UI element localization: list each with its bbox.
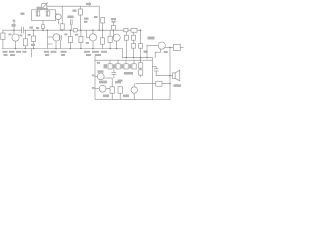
wire Q2 emitter <box>55 41 57 49</box>
resistor R4 <box>78 9 82 15</box>
wire T1 tap down <box>42 21 44 31</box>
capacitor T1 tap element <box>42 25 45 29</box>
label 6V <box>148 37 155 40</box>
wire B+ top rail <box>47 5 99 7</box>
wire Q7 base <box>95 88 99 90</box>
node antenna coil tap <box>12 24 16 27</box>
label m1 <box>104 64 108 68</box>
node dots ground <box>15 48 17 50</box>
label q1 area <box>9 34 12 36</box>
label osc <box>21 13 25 16</box>
resistor column x140 <box>140 30 142 43</box>
label near x99 <box>94 16 98 18</box>
capacitor C6 electrolytic <box>108 36 112 42</box>
label m7 <box>103 95 109 98</box>
label row bottom d <box>84 51 90 53</box>
label below T1 b <box>36 27 39 29</box>
resistor R1 <box>23 39 27 46</box>
transistor Q2b converter <box>55 14 61 20</box>
label row bottom-left a <box>3 51 8 53</box>
label below R2 <box>31 44 35 46</box>
label module pin A <box>97 62 100 64</box>
tick on top rail <box>89 3 91 6</box>
wire base feed Q2 <box>47 30 49 48</box>
resistor R8 <box>100 38 104 44</box>
resistor M-R3 <box>125 60 127 64</box>
label near rail2 <box>144 51 148 53</box>
label pin left b <box>92 87 94 89</box>
wire rail2 into module <box>151 58 153 61</box>
wire L1 top stub <box>2 30 4 33</box>
wire Q7 right <box>106 88 110 90</box>
resistor R10 on-line <box>124 29 128 32</box>
coil T1a <box>36 11 40 16</box>
wire bottom extension <box>152 99 170 101</box>
module box outline <box>95 60 152 99</box>
label C3 <box>68 16 74 19</box>
transformer box T1 <box>32 10 56 21</box>
wire R3 bottom <box>61 29 63 31</box>
trimmer capacitor VC1 <box>42 4 47 9</box>
label m4 <box>129 64 131 68</box>
wire Q2b to box <box>56 14 58 15</box>
coil T1b <box>46 11 50 16</box>
capacitor C4 <box>59 35 61 40</box>
label m6 <box>115 81 121 83</box>
resistor R7 <box>79 36 83 42</box>
wire Q2b down <box>57 20 59 24</box>
wire module right y83.6 <box>136 83 152 85</box>
speaker SP1 <box>172 73 175 78</box>
label speaker <box>174 84 182 87</box>
wire Q6 base <box>95 75 97 77</box>
wire Q1 emitter to ground <box>15 41 17 48</box>
capacitor C3 <box>69 20 71 25</box>
transistor Q7 <box>99 85 106 92</box>
wire cap column right of module <box>152 66 156 68</box>
wire main bus continues after C1 <box>24 29 141 31</box>
capacitor M-C1 <box>112 71 116 73</box>
ground rail <box>2 48 122 50</box>
resistor M-R4 <box>133 60 135 64</box>
wire stub x31 below ground <box>31 49 33 58</box>
wire Q4 emitter <box>116 41 118 48</box>
wire column x140 in module <box>140 58 142 63</box>
antenna wire <box>13 20 15 34</box>
transistor Q3 <box>89 34 96 41</box>
node dots rail2 <box>126 57 128 59</box>
box L1 earphone-left <box>1 33 5 40</box>
label m2 <box>113 64 115 68</box>
label r2 area <box>28 34 31 36</box>
coil tick T1b top <box>46 8 48 10</box>
label q3 area <box>86 42 89 44</box>
label r7 area <box>75 34 78 36</box>
label T1 <box>37 7 43 9</box>
wire Q5 base <box>147 44 158 46</box>
label near x170 top <box>164 51 168 53</box>
resistor column x126 <box>125 32 127 35</box>
wire Q3 collector <box>92 30 94 34</box>
wire R2 top <box>33 30 35 36</box>
wire R2 bottom <box>33 42 35 49</box>
wire to speaker <box>156 75 172 77</box>
wire Q4 base <box>112 30 114 37</box>
label below T1 a <box>30 27 34 29</box>
label cluster x85 <box>84 18 89 20</box>
transistor Q5 <box>158 42 165 49</box>
resistor R5 on-line <box>73 29 77 32</box>
wire Q3 emitter <box>92 41 94 49</box>
resistor column x133 <box>133 32 135 35</box>
resistor R9 <box>111 25 115 30</box>
wire Q6 right <box>104 77 112 79</box>
label pin left a <box>92 75 94 77</box>
resistor M-R6 <box>118 87 122 93</box>
label left of R4 <box>73 10 77 12</box>
transistor Q4 <box>113 34 120 41</box>
label r1 area <box>19 35 22 37</box>
resistor M-R1 <box>109 60 111 64</box>
wire y83.6 to x170 <box>152 83 170 85</box>
label right cluster <box>118 80 123 82</box>
label above Q6 <box>98 70 104 72</box>
resistor R3 <box>60 24 64 30</box>
label below Q6 <box>99 81 107 84</box>
resistor R6 <box>68 36 72 42</box>
node dots main bus <box>13 29 15 31</box>
wire feed column x99 <box>98 6 100 30</box>
wire feed column x62 <box>61 6 63 24</box>
transistor Q2 <box>53 34 60 41</box>
wire R1 bottom <box>24 46 26 49</box>
resistor M-R2 <box>117 60 119 64</box>
wire lower rail right section <box>122 57 152 59</box>
label r6 area <box>64 34 67 36</box>
wire Q3 base <box>86 30 88 37</box>
capacitor C10 <box>156 81 162 86</box>
label row bottom-left b <box>44 51 49 53</box>
label column x113 <box>111 18 116 20</box>
transistor Q6 <box>97 73 104 80</box>
transistor Q1 <box>12 34 19 41</box>
wire R4 top <box>79 6 81 9</box>
wire VC1 stub <box>43 9 45 10</box>
antenna arrow tick <box>13 20 15 22</box>
capacitor C1 <box>21 27 23 33</box>
label m3 <box>121 64 123 68</box>
wire C3 down <box>70 25 72 31</box>
resistor M-R5 <box>110 87 114 93</box>
capacitor C5 <box>101 18 105 24</box>
label m8 <box>123 95 129 98</box>
jack J1 <box>173 44 180 50</box>
resistor R11 on-line <box>131 28 137 32</box>
transistor Q8 <box>131 87 137 93</box>
wire Q5 collector <box>165 46 173 48</box>
wire Q5 emitter <box>160 49 162 52</box>
wire L1 bottom stub to ground <box>2 40 4 49</box>
capacitor C9 <box>154 68 158 70</box>
wire main horizontal bus y=30 <box>3 29 22 31</box>
wire ground to module corner <box>94 56 96 61</box>
resistor R2 <box>32 36 36 42</box>
coil tick T1a top <box>36 8 38 10</box>
label row bottom c <box>61 51 67 53</box>
label m5 <box>124 72 133 75</box>
wire R4 bottom <box>79 15 81 30</box>
node dots right <box>169 47 171 49</box>
wire long vertical x170 <box>169 47 171 99</box>
wire ground drop to lower rail <box>121 49 123 58</box>
wire R1 top <box>24 30 26 39</box>
